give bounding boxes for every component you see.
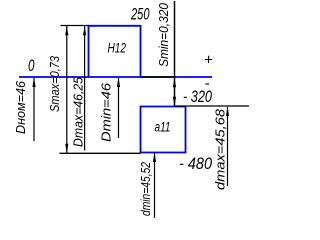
- svg-text:dmax=45,68: dmax=45,68: [213, 108, 228, 190]
- svg-text:Dmax=46,25: Dmax=46,25: [71, 76, 86, 147]
- extension line at Dmax level: [61, 25, 89, 27]
- arrow Dnom up: [32, 78, 35, 88]
- svg-text:dmin=45,52: dmin=45,52: [138, 161, 153, 216]
- svg-text:Dном=46: Dном=46: [13, 80, 28, 134]
- svg-text:+: +: [204, 52, 213, 69]
- arrow dmax up: [226, 107, 229, 117]
- svg-text:- 480: - 480: [179, 154, 212, 173]
- svg-text:Dmin=46: Dmin=46: [99, 82, 114, 142]
- vertical deviation axis: [174, 1, 176, 107]
- dimension line dmin: [154, 153, 156, 218]
- dimension line Dmax: [84, 26, 86, 151]
- dimension line dmax: [227, 107, 229, 186]
- arrow Smin up (on axis): [173, 78, 176, 88]
- shaft tolerance zone a11 (rectangle): [141, 107, 186, 153]
- arrow dmin up: [153, 153, 156, 163]
- hole tolerance zone H12 (open rectangle): [89, 26, 141, 77]
- dimension line Smax: [66, 26, 68, 153]
- extension line at dmin level (left of a11): [60, 152, 141, 154]
- dimension line Dmin: [118, 78, 120, 138]
- arrow Smin down (on axis): [173, 97, 176, 107]
- arrow Dmin up: [117, 78, 120, 88]
- extension line at -320 level to right edge: [175, 105, 250, 107]
- arrow Smax down: [65, 144, 68, 154]
- svg-text:250: 250: [130, 6, 150, 24]
- dimension line Dnom: [33, 78, 35, 141]
- svg-text:0: 0: [28, 56, 35, 75]
- svg-text:- 320: - 320: [183, 87, 212, 106]
- svg-text:Smin=0,320: Smin=0,320: [156, 2, 171, 67]
- svg-text:a11: a11: [155, 119, 171, 135]
- svg-text:H12: H12: [108, 41, 127, 56]
- extension line on zero line between H12 and axis: [141, 76, 175, 78]
- arrow Dmax up: [83, 26, 86, 36]
- arrow Smax up: [65, 26, 68, 36]
- zero line (blue): [19, 76, 212, 78]
- svg-text:Smax=0,73: Smax=0,73: [47, 55, 62, 112]
